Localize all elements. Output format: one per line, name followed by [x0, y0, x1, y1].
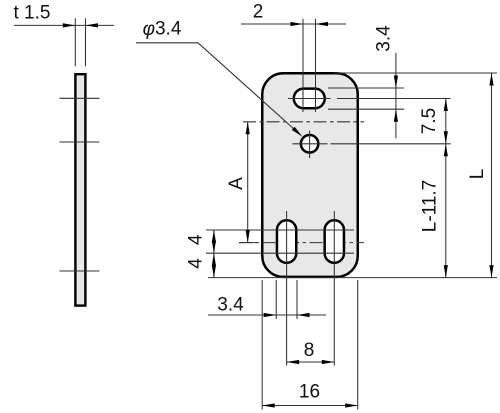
bottom slot left vertical centerline [286, 211, 288, 366]
dimension L arrow bottom [489, 265, 493, 278]
bottom slot right vertical centerline [333, 211, 335, 366]
dimension 3.4 bottom line [208, 314, 326, 316]
svg-text:L: L [467, 169, 488, 180]
dimension 8 arrow right [322, 360, 335, 364]
dimension L-11.7 arrow bottom [444, 265, 448, 278]
dimension 3.4 right arrow top [394, 76, 398, 89]
svg-text:4: 4 [186, 234, 207, 245]
dimension 8 arrow left [287, 360, 300, 364]
svg-text:L-11.7: L-11.7 [420, 180, 441, 232]
bottom edge extension line [208, 277, 497, 279]
bottom slots upper arc-center line [206, 229, 354, 231]
dimension 16 arrow left [262, 403, 275, 407]
upper centerline (dashed) [243, 121, 364, 123]
top edge extension line [334, 72, 497, 74]
dimension A bottom extension stub [239, 242, 258, 244]
dimension 7.5 arrow top [444, 99, 448, 112]
top slot horizontal centerline [288, 98, 331, 100]
hole crosshair vertical [309, 131, 311, 158]
leader shelf line [136, 42, 198, 44]
leader diagonal line [198, 43, 300, 134]
bottom slot left [277, 220, 296, 263]
top slot [294, 89, 325, 109]
dimension 7.5 line [445, 99, 447, 144]
plate right edge extension (16 dim) [357, 280, 359, 410]
dimension 16 line [262, 405, 358, 407]
side view hole position tick (lower) [60, 270, 100, 272]
dimension 4 arrows [212, 230, 216, 243]
dimension t 1.5 line [14, 24, 114, 26]
front view plate outline [262, 73, 358, 277]
dimension 7.5 arrow bottom [444, 131, 448, 144]
bottom slots lower arc-center line [206, 252, 354, 254]
slot right edge extension (3.4 dim) [296, 280, 298, 319]
dimension 16 arrow right [345, 403, 358, 407]
top slot bottom edge extension [328, 108, 404, 110]
svg-text:t 1.5: t 1.5 [14, 3, 51, 24]
side view hole position tick (circle) [60, 141, 100, 143]
dimension t 1.5 arrow right [86, 23, 99, 27]
svg-text:φ3.4: φ3.4 [143, 19, 182, 40]
hole phi 3.4 [301, 135, 319, 153]
dimension A arrow top [246, 122, 250, 135]
plate left edge extension (16 dim) [261, 280, 263, 410]
dimension 3.4 right line [395, 53, 397, 138]
dimension A arrow bottom [246, 230, 250, 243]
dimension t 1.5 arrow left [63, 23, 76, 27]
svg-text:3.4: 3.4 [374, 25, 395, 52]
svg-text:4: 4 [186, 258, 207, 269]
lower centerline (dashed) [239, 242, 364, 244]
dimension 8 line [287, 361, 335, 363]
dimension 2 line [241, 23, 346, 25]
side view hole position tick (top slot) [60, 97, 100, 99]
top slot top edge extension [328, 87, 404, 89]
svg-text:2: 2 [253, 2, 264, 23]
svg-text:8: 8 [304, 340, 315, 361]
top slot vertical arc-center lines [302, 19, 304, 112]
bottom slot right [325, 220, 344, 263]
side view plate (thickness view) [75, 74, 85, 305]
dimension t 1.5 extension lines [74, 18, 76, 66]
leader arrowhead [292, 127, 303, 137]
dimension 2 arrow right [316, 22, 329, 26]
svg-text:A: A [226, 177, 247, 190]
dimension 4 line [213, 230, 215, 278]
dimension 2 arrow left [291, 22, 304, 26]
svg-text:16: 16 [299, 382, 320, 403]
dimension L arrow top [489, 73, 493, 86]
dimension A line [247, 122, 249, 243]
dimension 3.4 bottom arrow left [264, 313, 277, 317]
dimension L-11.7 line [445, 144, 447, 278]
dimension L-11.7 arrow top [444, 144, 448, 157]
slot left edge extension (3.4 dim) [275, 280, 277, 319]
dimension 3.4 right arrow bottom [394, 109, 398, 122]
dimension L line [491, 73, 493, 278]
dimension 3.4 bottom arrow right [297, 313, 310, 317]
hole crosshair horizontal + extension [292, 143, 327, 145]
svg-text:3.4: 3.4 [217, 295, 244, 316]
svg-text:7.5: 7.5 [419, 108, 440, 134]
